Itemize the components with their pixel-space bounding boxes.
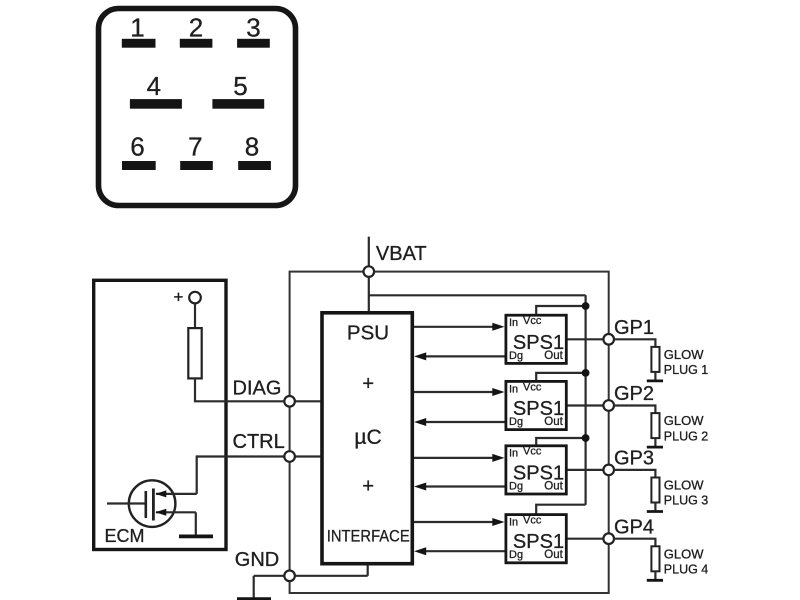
svg-text:Out: Out: [544, 416, 563, 428]
svg-text:Out: Out: [544, 480, 563, 492]
arrow Dg SPS1 into interface: [414, 352, 426, 360]
arrow Dg SPS3 into interface: [414, 483, 426, 491]
transistor Q1 source arrow: [155, 509, 166, 516]
arrow Dg SPS4 into interface: [414, 547, 426, 555]
wire Vcc stub SPS3: [536, 438, 585, 446]
ground glow plug 1: [647, 379, 663, 382]
node DIAG pin: [284, 396, 295, 407]
svg-text:DIAG: DIAG: [233, 377, 282, 399]
wire Vcc stub SPS1: [536, 306, 585, 315]
svg-text:GP2: GP2: [614, 383, 654, 405]
wire GP4 to glow plug 4: [614, 539, 656, 548]
svg-text:PLUG 2: PLUG 2: [664, 429, 709, 443]
junction dot Vcc bus 3: [582, 434, 590, 442]
pin 3 pad: [237, 39, 270, 48]
wire Dg line SPS3: [420, 485, 505, 487]
resistor pull-up in ECM: [188, 328, 201, 378]
junction dot Vcc bus 1: [582, 302, 590, 310]
driver block SPS1 a: [506, 315, 566, 363]
transistor Q1 body: [129, 480, 176, 527]
node CTRL pin: [284, 451, 295, 462]
wire CTRL horizontal: [197, 455, 321, 457]
ground glow plug 2: [647, 446, 663, 449]
svg-text:In: In: [509, 317, 518, 329]
wire Dg line SPS1: [420, 355, 505, 357]
transistor Q1 gate lead: [107, 502, 146, 504]
pin 6 pad: [122, 161, 156, 170]
wire Out SPS4 to GP4: [566, 538, 609, 540]
pin 8 pad: [238, 161, 271, 170]
svg-text:Dg: Dg: [509, 416, 523, 428]
svg-text:5: 5: [233, 71, 247, 101]
glow plug 4 lead: [654, 571, 656, 579]
junction dot Vcc bus 2: [582, 369, 590, 377]
pin 7 pad: [180, 161, 213, 170]
svg-text:CTRL: CTRL: [233, 431, 285, 453]
svg-text:4: 4: [147, 71, 161, 101]
svg-text:GLOW: GLOW: [664, 478, 704, 493]
wire Dg line SPS2: [420, 421, 505, 423]
svg-text:2: 2: [189, 12, 203, 42]
arrow into SPS1 In: [492, 323, 504, 331]
svg-text:8: 8: [245, 131, 259, 161]
ground glow plug 4: [647, 579, 663, 582]
ECM box: [94, 280, 226, 549]
svg-text:+: +: [174, 288, 184, 307]
wire In line SPS3: [414, 457, 497, 459]
wire uC block to GND: [367, 564, 369, 576]
svg-text:GP1: GP1: [614, 317, 654, 339]
ground glow plug 3: [647, 510, 663, 513]
pin 1 pad: [122, 39, 156, 48]
transistor Q1 channel plate: [152, 489, 155, 521]
svg-text:Vcc: Vcc: [523, 515, 542, 527]
connector housing J1: [99, 9, 296, 206]
wire Out SPS3 to GP3: [566, 469, 609, 471]
node GP4 pin: [603, 533, 614, 544]
svg-text:PLUG 3: PLUG 3: [664, 494, 709, 508]
transistor Q1 gate plate: [145, 491, 148, 518]
wire GP2 to glow plug 2: [614, 406, 656, 415]
transistor Q1 source lead: [156, 511, 196, 513]
transistor Q1 drain lead: [156, 493, 197, 495]
svg-text:7: 7: [188, 131, 202, 161]
svg-text:In: In: [509, 383, 518, 395]
glow plug 4 resistor: [651, 546, 659, 571]
glow plug 1 lead: [654, 372, 656, 380]
pin 4 pad: [130, 99, 182, 109]
wire Vcc stub SPS2: [536, 373, 585, 381]
svg-text:Out: Out: [544, 350, 563, 362]
svg-text:PSU: PSU: [347, 322, 389, 345]
svg-text:GLOW: GLOW: [664, 347, 704, 362]
svg-text:GLOW: GLOW: [664, 546, 704, 561]
node VBAT pin: [364, 266, 375, 277]
wire GP1 to glow plug 1: [614, 339, 656, 348]
svg-text:Out: Out: [544, 549, 563, 561]
pin 2 pad: [180, 39, 213, 48]
svg-text:ECM: ECM: [105, 526, 145, 546]
svg-text:In: In: [509, 517, 518, 529]
node GP2 pin: [603, 400, 614, 411]
svg-text:GLOW: GLOW: [664, 413, 704, 428]
svg-text:GP3: GP3: [614, 448, 654, 470]
svg-text:6: 6: [130, 131, 144, 161]
svg-text:INTERFACE: INTERFACE: [327, 527, 410, 545]
wire CTRL to transistor drain: [196, 455, 198, 494]
glow plug 3 resistor: [651, 478, 659, 503]
svg-text:Vcc: Vcc: [523, 381, 542, 393]
arrow Dg SPS2 into interface: [414, 418, 426, 426]
glow plug 3 lead: [654, 503, 656, 511]
wire Dg line SPS4: [420, 550, 505, 552]
arrow into SPS3 In: [492, 454, 504, 462]
ground in ECM: [179, 535, 213, 539]
driver block SPS1 c: [506, 446, 566, 494]
glow plug 2 resistor: [651, 413, 659, 438]
svg-text:GP4: GP4: [614, 516, 654, 538]
node GP3 pin: [603, 465, 614, 476]
svg-text:PLUG 4: PLUG 4: [664, 563, 709, 577]
wire In line SPS1: [414, 326, 497, 328]
svg-text:Dg: Dg: [509, 350, 523, 362]
svg-text:+: +: [362, 476, 374, 498]
wire In line SPS2: [414, 391, 497, 393]
arrow into SPS4 In: [492, 518, 504, 526]
wire VBAT feed to Vcc bus: [369, 294, 586, 296]
wire terminal to resistor: [194, 303, 196, 330]
glow plug 2 lead: [654, 438, 656, 446]
transistor Q1 drain arrow: [155, 490, 166, 497]
driver block SPS1 b: [506, 381, 566, 429]
svg-text:Vcc: Vcc: [523, 315, 542, 327]
svg-text:Dg: Dg: [509, 480, 523, 492]
wire GND horizontal: [254, 575, 368, 577]
svg-text:µC: µC: [354, 426, 381, 449]
svg-text:VBAT: VBAT: [376, 243, 427, 265]
wire Vcc stub SPS4: [536, 505, 585, 515]
wire resistor to DIAG: [195, 378, 320, 401]
wire GP3 to glow plug 3: [614, 470, 656, 479]
wire Out SPS2 to GP2: [566, 404, 609, 406]
svg-text:In: In: [509, 448, 518, 460]
node GP1 pin: [603, 334, 614, 345]
glow plug 1 resistor: [651, 347, 659, 372]
svg-text:PLUG 1: PLUG 1: [664, 363, 709, 377]
wire In line SPS4: [414, 521, 497, 523]
svg-text:GND: GND: [235, 549, 279, 571]
wire Out SPS1 to GP1: [566, 338, 609, 340]
controller block U1: [322, 313, 412, 564]
ground external: [237, 597, 271, 600]
battery terminal circle: [189, 292, 201, 304]
wire Vcc bus vertical: [584, 295, 586, 504]
module boundary: [290, 272, 609, 593]
svg-text:Vcc: Vcc: [523, 446, 542, 458]
svg-text:+: +: [362, 373, 374, 395]
wire GND down to ground: [253, 576, 255, 599]
arrow into SPS2 In: [492, 388, 504, 396]
wire VBAT vertical: [368, 237, 370, 312]
driver block SPS1 d: [506, 515, 566, 563]
svg-text:Dg: Dg: [509, 549, 523, 561]
node GND pin: [284, 571, 295, 582]
pin 5 pad: [212, 99, 264, 109]
svg-text:1: 1: [130, 12, 144, 42]
wire source to ground: [195, 512, 197, 535]
svg-text:3: 3: [246, 12, 260, 42]
